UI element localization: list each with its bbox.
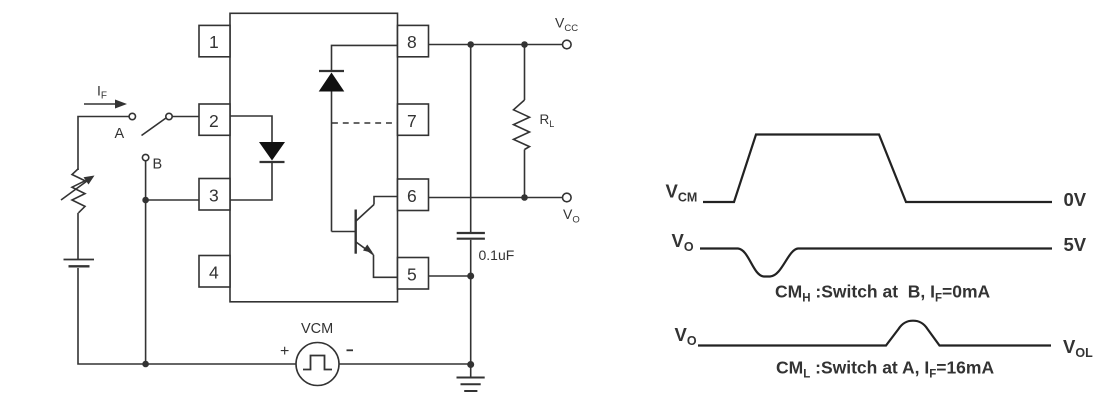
svg-text:0.1uF: 0.1uF — [479, 247, 515, 263]
label B — [153, 157, 163, 173]
junction pin5 node — [467, 273, 474, 280]
junction cap branch top — [467, 41, 474, 48]
arrow IF direction — [84, 100, 127, 109]
label IF — [97, 83, 107, 102]
trace VO low waveform — [698, 321, 1051, 346]
wire B down to bottom rail — [145, 161, 147, 364]
label RL — [540, 112, 555, 129]
label VCC — [555, 15, 578, 35]
pin 7 — [398, 104, 429, 135]
pin 2 — [199, 104, 230, 135]
switch pole circle — [166, 113, 172, 119]
wire pin6 to VO — [429, 197, 563, 199]
wire to transistor base — [332, 231, 356, 233]
contact A circle — [129, 113, 135, 119]
wire RV to battery — [77, 213, 79, 259]
svg-text:+: + — [280, 343, 289, 360]
svg-text:0V: 0V — [1064, 189, 1087, 210]
wire VCM to ground node — [339, 363, 471, 365]
svg-text:4: 4 — [209, 263, 219, 283]
transistor Q1 — [356, 197, 398, 278]
junction RL top — [521, 41, 528, 48]
diode D2 base-collector — [319, 71, 345, 92]
wire pin8 internal — [332, 45, 398, 70]
LED D1 — [259, 142, 285, 162]
battery BT1 — [64, 260, 95, 267]
svg-text:3: 3 — [209, 186, 219, 206]
svg-text:A: A — [115, 126, 125, 142]
waveform group — [698, 135, 1052, 346]
junction bottom rail / B wire — [142, 361, 149, 368]
terminal VCC — [563, 40, 572, 49]
VCM pulse source — [296, 343, 339, 386]
wire pin2 to LED — [230, 116, 272, 142]
label A — [115, 126, 125, 142]
ground symbol — [457, 365, 485, 392]
IC package U1 — [230, 13, 398, 302]
variable resistor RV — [61, 169, 95, 213]
label minus — [347, 349, 354, 351]
junction node B/pin3 — [142, 197, 149, 204]
switch arm — [142, 118, 167, 136]
wire cap branch upper — [470, 45, 472, 233]
svg-text:VCM: VCM — [301, 321, 333, 337]
svg-text:5V: 5V — [1064, 234, 1087, 255]
wire junction to pin3 — [146, 199, 199, 201]
svg-text:2: 2 — [209, 111, 219, 131]
wire pole to pin2 — [172, 116, 199, 118]
pin 8 — [398, 25, 429, 56]
svg-text:7: 7 — [407, 111, 417, 131]
label plus — [280, 343, 289, 360]
label VCM — [301, 321, 333, 337]
pin 6 — [398, 179, 429, 211]
svg-text:5: 5 — [407, 265, 417, 285]
wire pin8 to VCC — [429, 44, 563, 46]
wire pin5 to node — [429, 275, 471, 277]
terminal VO — [563, 193, 572, 202]
wire cap branch lower — [470, 240, 472, 365]
label VO — [563, 206, 580, 226]
svg-text:B: B — [153, 157, 163, 173]
trace VCM waveform — [703, 135, 1052, 203]
pin 5 — [398, 258, 429, 290]
svg-text:6: 6 — [407, 186, 417, 206]
trace VO high waveform — [700, 249, 1052, 277]
wire diode to base — [331, 92, 333, 232]
dashed base lead to pin7 — [332, 122, 398, 124]
svg-text:8: 8 — [407, 32, 417, 52]
resistor RL — [514, 45, 530, 198]
svg-text:1: 1 — [209, 32, 219, 52]
pin 4 — [199, 256, 230, 288]
junction RL bottom — [521, 194, 528, 201]
capacitor C1 0.1uF — [457, 233, 485, 239]
wire LED to pin3 — [230, 162, 272, 200]
junction ground node — [467, 361, 474, 368]
contact B circle — [142, 154, 148, 160]
pin 1 — [199, 25, 230, 56]
wire from RV top to contact A — [78, 117, 129, 171]
label 0.1uF — [479, 247, 515, 263]
wire battery to bottom rail — [78, 268, 296, 364]
pin 3 — [199, 179, 230, 211]
